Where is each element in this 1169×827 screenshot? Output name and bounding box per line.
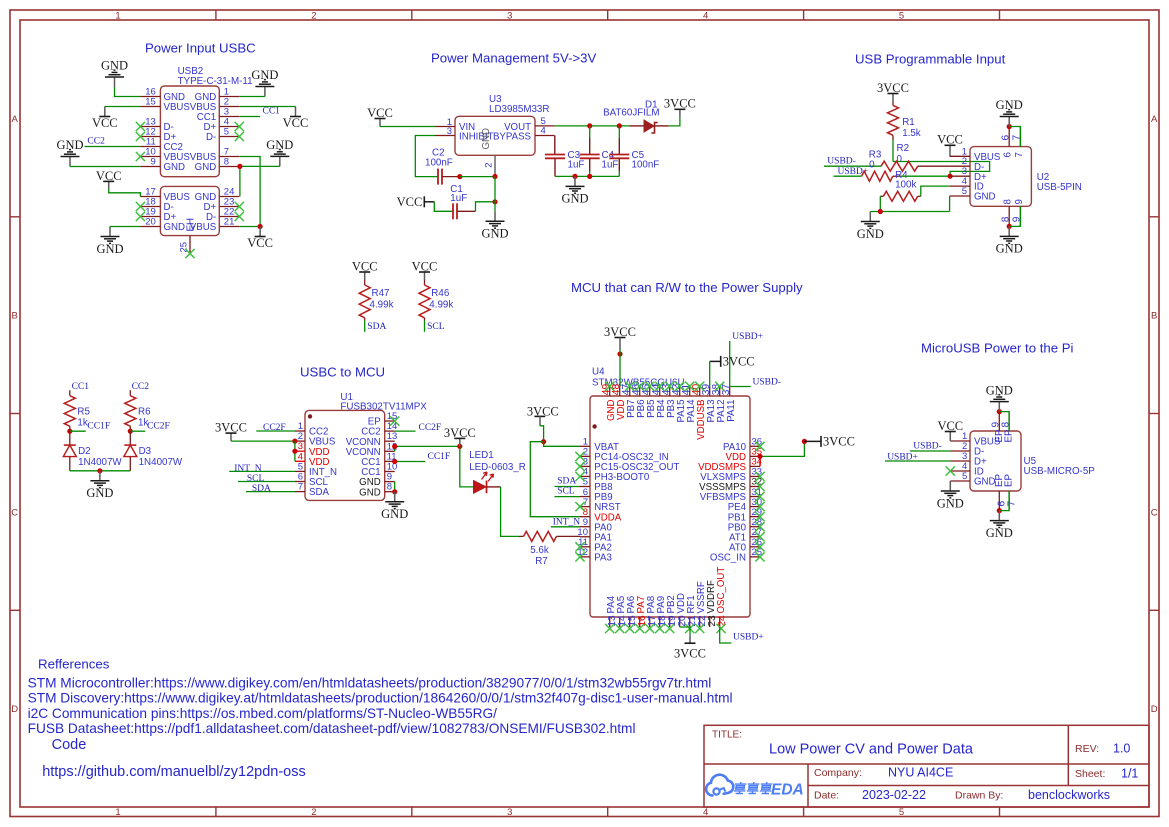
svg-text:R2: R2 xyxy=(897,143,910,154)
logo JLCEDA text xyxy=(734,782,804,799)
svg-text:SDA: SDA xyxy=(309,487,329,498)
junction U1 pin2 xyxy=(292,439,297,444)
net label USBD- at U5 xyxy=(913,441,942,451)
wire U2 ground rail xyxy=(870,211,949,213)
svg-text:A: A xyxy=(12,114,19,125)
no-connect X U4 pin 4 xyxy=(575,472,584,481)
svg-text:GND: GND xyxy=(974,192,996,203)
ground flag GND at U5 pin5 xyxy=(937,481,964,510)
wire U1 pin14 CC2F xyxy=(395,430,416,432)
svg-text:3VCC: 3VCC xyxy=(444,426,476,440)
no-connect X U4 pin 31 xyxy=(755,492,764,501)
svg-text:100nF: 100nF xyxy=(632,160,660,171)
resistor R47 4.99k xyxy=(359,280,393,321)
wire pin 2 to VCC xyxy=(239,106,295,108)
no-connect X U4 pin 36 xyxy=(755,442,764,451)
section title USB Programmable Input xyxy=(855,52,1006,67)
text reference link 4 xyxy=(28,721,636,736)
svg-text:1k: 1k xyxy=(77,418,87,429)
wire CC2F to U1 pin1 xyxy=(256,430,295,432)
junction C1 node xyxy=(492,199,497,204)
wire R47 SDA stub xyxy=(364,321,366,332)
svg-text:4: 4 xyxy=(541,126,546,137)
svg-text:INT_N: INT_N xyxy=(553,517,581,527)
no-connect X pin 25 xyxy=(185,249,194,258)
net label USBD- right of U4 top xyxy=(753,377,782,387)
no-connect X U4 pin 25 xyxy=(755,552,764,561)
section title Power Input USBC xyxy=(145,41,256,56)
svg-text:3VCC: 3VCC xyxy=(823,435,855,449)
svg-text:R47: R47 xyxy=(372,288,390,299)
no-connect X U4 pin 46 xyxy=(635,382,644,391)
svg-text:USB Programmable Input: USB Programmable Input xyxy=(855,52,1006,67)
no-connect X U5 pin4 xyxy=(946,466,955,475)
no-connect X U4 pin 40 xyxy=(695,382,704,391)
svg-text:D2: D2 xyxy=(78,446,91,457)
svg-text:5: 5 xyxy=(899,807,904,818)
power flag VCC at U5 VBUS xyxy=(937,419,963,440)
wire D2 D3 ground rail xyxy=(70,470,131,472)
wire GND to pin 9 xyxy=(70,166,140,168)
no-connect X pin 19 xyxy=(136,212,145,221)
capacitor C3 1uF xyxy=(545,150,584,177)
wire VCC to VIN xyxy=(380,126,435,128)
no-connect X U4 pin 13 xyxy=(605,624,614,633)
wire USBD- to R3 xyxy=(824,165,881,167)
no-connect X U4 pin 26 xyxy=(755,542,764,551)
wire SCL to U4 pin6 xyxy=(555,496,581,498)
svg-text:1: 1 xyxy=(115,807,120,818)
wire VOUT rail xyxy=(555,125,630,127)
svg-text:Drawn By:: Drawn By: xyxy=(955,790,1003,802)
net label USBD+ top xyxy=(732,332,763,342)
power flag 3VCC right of U4 xyxy=(804,435,855,449)
svg-text:6: 6 xyxy=(1000,135,1011,141)
power flag 3VCC at U4 pin39 xyxy=(710,355,755,369)
capacitor C4 1uF xyxy=(580,126,619,176)
junction U1 pin8 xyxy=(392,489,397,494)
svg-text:C: C xyxy=(1151,507,1158,518)
svg-text:Power Management 5V->3V: Power Management 5V->3V xyxy=(431,51,597,66)
svg-text:GND: GND xyxy=(96,242,123,256)
svg-text:VCC: VCC xyxy=(937,419,963,433)
no-connect X U4 pin 18 xyxy=(655,624,664,633)
svg-text:Date:: Date: xyxy=(814,790,839,802)
power flag 3VCC left of U4 xyxy=(527,404,559,426)
wire VCC to U5 pin1 xyxy=(949,440,951,442)
svg-text:3: 3 xyxy=(447,126,452,137)
svg-text:GND: GND xyxy=(359,487,381,498)
title block frame xyxy=(704,725,1149,807)
svg-text:20: 20 xyxy=(145,217,156,228)
wire R46 SCL stub xyxy=(424,321,426,332)
no-connect X pin 4 xyxy=(235,122,244,131)
net label SDA xyxy=(367,322,386,332)
net label USBD+ at U5 xyxy=(887,452,918,462)
net label SDA at U4 xyxy=(557,477,576,487)
no-connect X U4 pin 30 xyxy=(755,502,764,511)
no-connect X U4 pin 16 xyxy=(635,624,644,633)
svg-text:R7: R7 xyxy=(535,556,548,567)
svg-text:3VCC: 3VCC xyxy=(664,97,696,111)
ground flag GND below U5 xyxy=(986,511,1013,540)
wire U1 GND pins xyxy=(394,482,396,492)
net label CC1 at R5 xyxy=(72,382,90,392)
wire pin 20 to GND xyxy=(110,226,140,228)
svg-text:1uF: 1uF xyxy=(450,193,467,204)
no-connect X U4 pin 27 xyxy=(755,532,764,541)
svg-text:LED1: LED1 xyxy=(469,450,494,461)
wire SDA to U4 pin5 xyxy=(555,486,581,488)
svg-text:CC1F: CC1F xyxy=(428,452,451,462)
svg-text:Low Power CV and Power Data: Low Power CV and Power Data xyxy=(769,742,974,758)
junction ground rail U2 xyxy=(878,209,883,214)
resistor R4 100k upper xyxy=(862,170,917,191)
no-connect X U4 pin 12 xyxy=(575,552,584,561)
no-connect X U4 pin 43 xyxy=(665,382,674,391)
text REV label xyxy=(1075,743,1099,755)
svg-text:CC2F: CC2F xyxy=(147,422,170,432)
ground flag GND at pin 20 xyxy=(96,227,123,256)
capacitor C5 100nF xyxy=(609,126,659,176)
no-connect X pin 12 xyxy=(136,132,145,141)
wire pin15 to VCC xyxy=(105,106,141,108)
svg-text:1N4007W: 1N4007W xyxy=(139,457,183,468)
text REV value 1.0 xyxy=(1113,742,1130,756)
svg-text:9: 9 xyxy=(1014,199,1025,204)
svg-text:C: C xyxy=(11,507,18,518)
connector USB2 TYPE-C-31-M-11 upper body xyxy=(140,66,252,177)
power flag 3VCC at R1 xyxy=(877,81,909,102)
junction 3VCC LED node xyxy=(457,444,462,449)
wire U3 GND down xyxy=(494,177,496,212)
no-connect X U4 pin 41 xyxy=(685,382,694,391)
wire VCC to C1 xyxy=(434,202,453,212)
svg-text:4: 4 xyxy=(703,11,708,22)
wire R2 loop to D+ node xyxy=(893,162,990,177)
ground flag GND at pin 9 xyxy=(56,138,83,166)
svg-text:24: 24 xyxy=(717,615,728,627)
net label CC1 xyxy=(263,106,281,116)
svg-text:EP: EP xyxy=(1004,474,1015,487)
net label SCL xyxy=(427,322,445,332)
svg-text:3VCC: 3VCC xyxy=(604,325,636,339)
resistor R3 0 xyxy=(869,149,950,171)
no-connect X U4 pin 3 xyxy=(575,462,584,471)
svg-text:GND: GND xyxy=(481,227,508,241)
no-connect X pin 23 xyxy=(235,202,244,211)
junction U1 pin11 xyxy=(392,459,397,464)
text reference link 2 xyxy=(28,691,733,706)
svg-text:USBD+: USBD+ xyxy=(733,632,764,642)
power flag 3VCC after D1 xyxy=(664,97,696,118)
svg-text:VCC: VCC xyxy=(397,195,423,209)
power flag VCC at pin 15 xyxy=(92,107,118,131)
svg-text:8: 8 xyxy=(1000,216,1011,222)
wire pin 8 to GND and down to pin 24 xyxy=(240,166,280,196)
svg-text:R5: R5 xyxy=(77,407,90,418)
no-connect X U4 pin 29 xyxy=(755,512,764,521)
svg-text:5: 5 xyxy=(962,471,967,482)
svg-text:3: 3 xyxy=(507,11,512,22)
svg-text:5.6k: 5.6k xyxy=(530,545,549,556)
net label CC1F at U1 pin11 xyxy=(428,452,451,462)
no-connect X U4 pin 17 xyxy=(645,624,654,633)
no-connect X U4 pin 11 xyxy=(575,542,584,551)
svg-text:GND: GND xyxy=(56,138,83,152)
svg-text:15: 15 xyxy=(145,97,156,108)
svg-text:5: 5 xyxy=(962,186,967,197)
svg-text:VCC: VCC xyxy=(283,116,309,130)
junction cap rail C4 xyxy=(587,174,592,179)
wire 100k to ground rail xyxy=(879,196,881,211)
wire C2 to GND pin xyxy=(460,176,495,178)
svg-text:100k: 100k xyxy=(895,180,916,191)
connector USB2 lower body xyxy=(140,186,239,253)
svg-text:8: 8 xyxy=(224,157,229,168)
svg-text:SCL: SCL xyxy=(247,474,265,484)
svg-text:FUSB302TV11MPX: FUSB302TV11MPX xyxy=(340,402,427,413)
no-connect X pin 13 xyxy=(136,122,145,131)
net label CC2F at U1 pin1 xyxy=(263,423,286,433)
svg-text:STM Discovery:https://www.digi: STM Discovery:https://www.digikey.at/htm… xyxy=(28,691,733,706)
svg-text:GND: GND xyxy=(996,242,1023,256)
svg-text:EP: EP xyxy=(1004,430,1015,443)
svg-text:GND: GND xyxy=(996,98,1023,112)
text date 2023-02-22 xyxy=(862,788,926,802)
wire SCL to U1 pin6 xyxy=(238,481,295,483)
wire USBD+ to R4 xyxy=(834,175,862,177)
svg-text:VCC: VCC xyxy=(367,106,393,120)
text Date label xyxy=(814,790,839,802)
ground flag GND at pin 1 xyxy=(251,68,278,96)
svg-text:GND: GND xyxy=(937,496,964,510)
svg-text:8: 8 xyxy=(1003,199,1014,204)
svg-text:3VCC: 3VCC xyxy=(674,646,706,660)
svg-text:3: 3 xyxy=(507,807,512,818)
wire U2 GND pin down xyxy=(949,196,951,212)
wire U4 VDD pin35 to 3VCC xyxy=(760,441,804,456)
wire U4 pin24 to USBD+ xyxy=(720,627,732,643)
svg-text:CC1: CC1 xyxy=(263,106,281,116)
svg-text:i2C Communication pins:https:/: i2C Communication pins:https://os.mbed.c… xyxy=(28,706,498,721)
net label INT_N at U1 xyxy=(234,464,262,474)
wire node to VBAT xyxy=(544,442,580,447)
svg-text:2023-02-22: 2023-02-22 xyxy=(862,788,926,802)
svg-text:8: 8 xyxy=(387,482,392,493)
wire VDDSMPS tie xyxy=(759,456,761,466)
svg-text:GND: GND xyxy=(974,477,996,488)
svg-text:D3: D3 xyxy=(139,446,152,457)
resistor R1 1.5k xyxy=(888,102,921,141)
logo JLCEDA cloud xyxy=(706,775,733,796)
svg-text:GND: GND xyxy=(381,507,408,521)
svg-text:B: B xyxy=(1151,311,1157,322)
text company NYU AI4CE xyxy=(888,766,953,780)
no-connect X pin 5 xyxy=(235,132,244,141)
ground flag GND below U2 xyxy=(996,226,1023,255)
svg-text:PA11: PA11 xyxy=(726,400,737,422)
svg-text:SDA: SDA xyxy=(252,484,271,494)
svg-text:4: 4 xyxy=(703,807,708,818)
svg-text:GND: GND xyxy=(101,59,128,73)
svg-text:OSC_IN: OSC_IN xyxy=(710,552,746,563)
power flag 3VCC above U4 xyxy=(604,325,636,349)
wire U1 pin12 to 3VCC node xyxy=(395,446,460,451)
text schematic title Low Power CV and Power Data xyxy=(769,742,974,758)
svg-text:5: 5 xyxy=(224,127,229,138)
text Sheet label xyxy=(1075,768,1105,780)
ground flag GND above U5 xyxy=(986,383,1013,411)
svg-text:NYU AI4CE: NYU AI4CE xyxy=(888,766,953,780)
svg-text:CC2: CC2 xyxy=(87,136,105,146)
power flag VCC at U2 VBUS xyxy=(937,133,963,154)
svg-text:4.99k: 4.99k xyxy=(429,300,453,311)
wire USBD+ to U5 pin3 xyxy=(885,460,950,462)
svg-text:BYPASS: BYPASS xyxy=(493,132,532,143)
no-connect X U4 pin 28 xyxy=(755,522,764,531)
svg-text:OSC_OUT: OSC_OUT xyxy=(716,567,727,614)
ground flag GND below U3 xyxy=(481,211,508,240)
wire LED1 to R7 xyxy=(487,486,501,488)
text github link xyxy=(42,764,306,780)
junction cap rail GND xyxy=(572,174,577,179)
diode D1 BAT60JFILM xyxy=(603,100,669,134)
no-connect X U4 pin 45 xyxy=(645,382,654,391)
svg-text:6: 6 xyxy=(1003,152,1014,157)
no-connect X U4 pin 2 xyxy=(575,452,584,461)
wire pin 1 to GND xyxy=(239,96,265,98)
wire U2 top pin bridge xyxy=(1009,127,1020,147)
net label CC2 xyxy=(87,136,105,146)
net label CC2 at R6 xyxy=(132,382,150,392)
svg-text:USB-MICRO-5P: USB-MICRO-5P xyxy=(1024,466,1096,477)
svg-text:INT_N: INT_N xyxy=(234,464,262,474)
svg-text:VCC: VCC xyxy=(937,133,963,147)
no-connect X U4 pin 33 xyxy=(755,472,764,481)
svg-text:1.0: 1.0 xyxy=(1113,742,1130,756)
resistor R7 5.6k xyxy=(519,531,580,567)
junction U1 pin12 xyxy=(392,444,397,449)
wire U1 pin11 CC1F xyxy=(395,461,426,463)
svg-text:7: 7 xyxy=(298,482,303,493)
no-connect X pin 10 xyxy=(136,152,145,161)
svg-text:CC1: CC1 xyxy=(72,382,90,392)
svg-text:GND: GND xyxy=(986,526,1013,540)
no-connect X U4 pin 21 xyxy=(685,624,694,633)
wire USBD- stub xyxy=(731,386,751,388)
diode D2 1N4007W xyxy=(63,431,122,471)
svg-text:USBD-: USBD- xyxy=(827,157,856,167)
svg-text:GND: GND xyxy=(164,222,186,233)
svg-text:3VCC: 3VCC xyxy=(877,81,909,95)
no-connect X U4 pin 22 xyxy=(695,624,704,633)
power flag VCC at pin 2 xyxy=(283,107,309,131)
svg-text:STM Microcontroller:https://ww: STM Microcontroller:https://www.digikey.… xyxy=(28,676,712,691)
no-connect X U4 pin 15 xyxy=(625,624,634,633)
power flag 3VCC above LED1 xyxy=(444,426,476,447)
svg-text:LED-0603_R: LED-0603_R xyxy=(469,462,526,473)
svg-text:1N4007W: 1N4007W xyxy=(78,457,122,468)
led LED1 LED-0603_R xyxy=(460,446,526,493)
svg-text:9: 9 xyxy=(151,157,156,168)
no-connect X pin 18 xyxy=(136,202,145,211)
junction 3VCC right xyxy=(802,439,807,444)
no-connect X U4 pin 49 xyxy=(605,382,614,391)
svg-text:Company:: Company: xyxy=(814,767,862,779)
svg-text:BAT60JFILM: BAT60JFILM xyxy=(603,108,659,119)
resistor R2 0ohm link xyxy=(893,140,909,165)
svg-text:Power Input USBC: Power Input USBC xyxy=(145,41,256,56)
power flag VCC at pin 17 xyxy=(96,169,122,190)
wire INT_N to U1 pin5 xyxy=(229,470,295,472)
svg-text:1/1: 1/1 xyxy=(1121,767,1138,781)
text code heading xyxy=(52,737,87,753)
junction U2 top pins xyxy=(1007,124,1012,129)
net label SCL at U4 xyxy=(557,487,575,497)
svg-text:VCC: VCC xyxy=(96,169,122,183)
svg-text:TYPE-C-31-M-11: TYPE-C-31-M-11 xyxy=(178,76,253,87)
svg-text:0: 0 xyxy=(869,160,875,171)
power flag VCC at R46 xyxy=(412,259,438,280)
power flag VCC at U3 VIN xyxy=(367,106,393,127)
svg-text:R46: R46 xyxy=(431,288,450,299)
svg-text:2: 2 xyxy=(311,11,316,22)
svg-text:USBC to MCU: USBC to MCU xyxy=(300,365,385,380)
power flag 3VCC at U1 left xyxy=(215,421,247,442)
resistor R5 1k xyxy=(64,390,90,431)
section title USBC to MCU xyxy=(300,365,385,380)
junction 3VCC VBAT node xyxy=(541,439,546,444)
svg-text:Refferences: Refferences xyxy=(38,657,110,672)
wire node to VDDA loop xyxy=(530,442,580,517)
svg-text:5: 5 xyxy=(899,11,904,22)
svg-text:VCC: VCC xyxy=(352,259,378,273)
svg-text:USBD-: USBD- xyxy=(913,441,942,451)
no-connect X U4 pin 47 xyxy=(625,382,634,391)
text sheet value 1/1 xyxy=(1121,767,1138,781)
svg-text:100nF: 100nF xyxy=(425,158,453,169)
wire R4 to D+ pin xyxy=(901,175,951,177)
svg-text:1: 1 xyxy=(115,11,120,22)
svg-text:2: 2 xyxy=(484,163,495,168)
junction VOUT C4 xyxy=(587,123,592,128)
svg-text:GND: GND xyxy=(481,128,492,150)
svg-text:Code: Code xyxy=(52,737,87,753)
svg-text:CC2: CC2 xyxy=(132,382,150,392)
junction CC1F xyxy=(67,429,72,434)
svg-text:SDA: SDA xyxy=(367,322,386,332)
svg-text:D-: D- xyxy=(206,132,216,143)
junction at pin 21 xyxy=(258,224,263,229)
text reference link 1 xyxy=(28,676,712,691)
svg-text:R6: R6 xyxy=(138,407,151,418)
no-connect X U4 pin 19 xyxy=(665,624,674,633)
wire U1 VDD tie xyxy=(294,441,296,461)
section title Power Management 5V->3V xyxy=(431,51,597,66)
ic U1 FUSB302TV11MPX xyxy=(295,392,427,501)
wire U2 bottom pin bridge xyxy=(1009,206,1020,226)
wire 100k to ID pin xyxy=(921,186,950,196)
svg-text:GND: GND xyxy=(857,227,884,241)
no-connect X U4 pin 14 xyxy=(615,624,624,633)
net label CC2F at U1 pin14 xyxy=(419,423,442,433)
ground flag GND at pin 16 xyxy=(101,59,128,87)
wire CC1F stub xyxy=(70,430,86,432)
svg-text:21: 21 xyxy=(224,217,235,228)
wire 3VCC to VBAT and VDDA xyxy=(540,426,544,442)
junction VOUT C5 xyxy=(617,123,622,128)
